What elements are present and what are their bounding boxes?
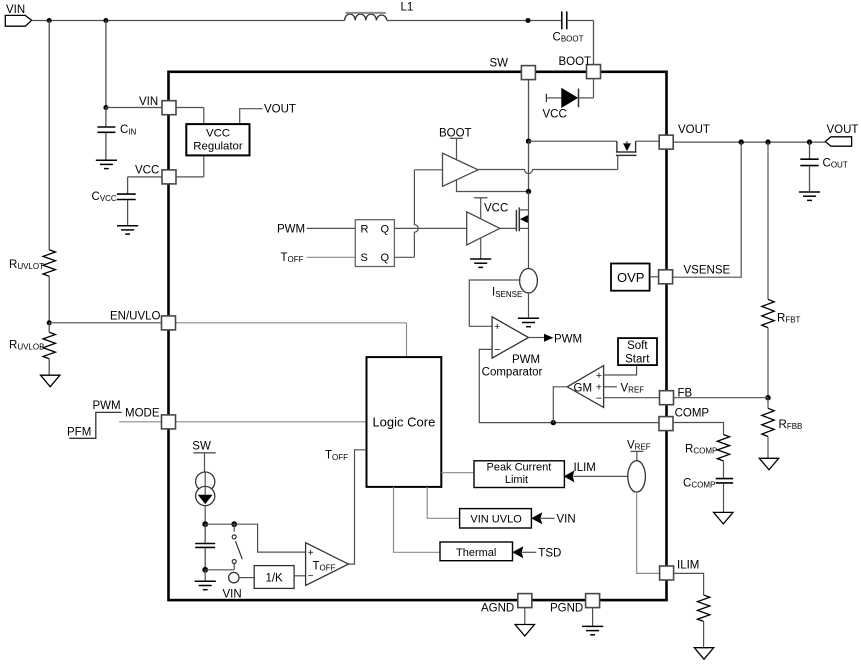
svg-text:Q: Q	[381, 224, 390, 236]
arrow TSD into Thermal	[513, 547, 523, 557]
buffer high-side driver	[443, 153, 479, 186]
wire VIN down to RUVLOT	[48, 21, 50, 250]
node junction COUT tap	[807, 139, 812, 144]
svg-text:ILIM: ILIM	[574, 462, 596, 474]
resistor RUVLOB	[43, 332, 55, 358]
ground below ISENSE	[518, 317, 539, 319]
wire SW pin down	[528, 79, 530, 141]
ground below CVCC	[117, 225, 138, 227]
svg-text:VOUT: VOUT	[827, 124, 859, 136]
node junction FB divider	[765, 395, 770, 400]
wire high driver output to gate	[478, 170, 618, 174]
svg-text:−: −	[494, 344, 500, 356]
wire sense FET to ISENSE	[528, 228, 530, 268]
svg-text:COMP: COMP	[675, 408, 710, 420]
wire MODE external	[119, 421, 161, 423]
wire VREF source to ILIM pin	[637, 492, 659, 573]
wire CIN node to VIN pin	[106, 107, 162, 109]
pin VCC	[162, 170, 176, 184]
svg-text:Limit: Limit	[505, 474, 528, 486]
svg-text:Thermal: Thermal	[456, 547, 496, 559]
wire comparator minus to COMP	[479, 349, 659, 422]
capacitor CVCC	[127, 177, 129, 194]
svg-text:S: S	[361, 252, 368, 264]
svg-text:PWM: PWM	[554, 334, 582, 346]
pin EN/UVLO	[162, 316, 176, 330]
svg-text:GM: GM	[574, 382, 593, 394]
svg-text:VCC: VCC	[543, 109, 567, 121]
wire Q to low driver	[394, 227, 466, 229]
svg-text:VIN UVLO: VIN UVLO	[470, 514, 522, 526]
wire FB to GM minus	[604, 397, 660, 399]
wire VREF to GM plus	[604, 386, 617, 388]
label BOOT driver supply	[450, 137, 463, 139]
wire TOFF comparator to Logic Core	[348, 450, 366, 564]
wire SW junction down	[528, 141, 530, 191]
svg-text:Comparator: Comparator	[482, 366, 543, 378]
label VCC driver supply	[474, 197, 487, 199]
node junction VIN-RUVLO	[47, 18, 52, 23]
switch discharge	[233, 524, 235, 532]
node junction VIN-CIN	[103, 18, 108, 23]
svg-text:VIN: VIN	[6, 4, 25, 16]
wire Logic Core to Thermal	[394, 487, 441, 552]
ground below AGND	[524, 608, 526, 625]
svg-text:VIN: VIN	[557, 513, 576, 525]
resistor RFBT	[767, 142, 769, 299]
wire MODE to Logic Core	[176, 421, 367, 423]
inductor L1	[345, 14, 387, 20]
ground below COUT	[799, 191, 820, 193]
block Soft Start	[618, 338, 657, 365]
svg-text:EN/UVLO: EN/UVLO	[110, 310, 161, 322]
node VOUT output flag	[825, 137, 851, 146]
wire Qbar to high driver	[394, 256, 414, 258]
wire cap bottom to ground	[204, 570, 206, 582]
wire OVP to VSENSE pin	[650, 276, 660, 278]
block VCC Regulator	[186, 124, 249, 155]
resistor RUVLOT	[43, 250, 55, 276]
wire Logic Core to VIN UVLO	[427, 487, 459, 518]
pin BOOT	[587, 65, 601, 79]
svg-text:PFM: PFM	[67, 427, 91, 439]
svg-text:−: −	[596, 393, 602, 405]
svg-text:Start: Start	[625, 353, 650, 365]
wire RUVLOB to ground	[48, 359, 50, 376]
wire VOUT rail	[673, 141, 825, 143]
wire COMP external	[673, 423, 724, 435]
ground below CCOMP	[714, 512, 733, 524]
pin SW	[521, 66, 535, 80]
arrow PWM output	[544, 334, 552, 341]
svg-text:TSD: TSD	[538, 548, 561, 560]
wire current source to cap	[204, 506, 206, 525]
svg-text:+: +	[494, 321, 500, 333]
node junction SW-FET	[526, 139, 531, 144]
op-amp GM error amplifier	[567, 366, 603, 408]
wire EN/UVLO	[49, 322, 161, 324]
node junction cap bottom	[202, 567, 208, 573]
ground below low driver	[470, 258, 491, 260]
svg-text:VSENSE: VSENSE	[684, 264, 731, 276]
svg-text:OVP: OVP	[617, 270, 644, 285]
svg-text:−: −	[308, 571, 314, 582]
capacitor CIN	[105, 108, 107, 127]
block Thermal	[440, 542, 513, 561]
pin MODE	[162, 415, 176, 429]
capacitor timing	[204, 524, 206, 543]
svg-text:BOOT: BOOT	[439, 128, 472, 140]
wire VIN terminal to 1/K	[239, 577, 254, 579]
arrow VIN into VIN UVLO	[532, 513, 542, 523]
svg-text:R: R	[361, 224, 369, 236]
svg-text:VCC: VCC	[484, 202, 508, 214]
wire CBOOT to BOOT pin	[567, 20, 594, 22]
node junction GM output	[551, 420, 556, 425]
svg-text:L1: L1	[401, 1, 414, 13]
svg-text:Logic Core: Logic Core	[372, 415, 435, 430]
block Peak Current Limit	[474, 461, 564, 488]
latch RS flip-flop	[355, 220, 394, 267]
wire RFBT to FB node	[767, 328, 769, 398]
svg-text:Soft: Soft	[627, 340, 648, 352]
svg-text:+: +	[596, 370, 602, 382]
transistor high-side FET	[529, 140, 617, 142]
node junction timing cap	[202, 521, 208, 527]
node junction SW-top	[526, 18, 531, 23]
wire inductor to CBOOT	[387, 20, 561, 22]
capacitor COUT	[809, 142, 811, 159]
svg-text:AGND: AGND	[481, 602, 514, 614]
wire soft start to GM plus	[604, 365, 637, 375]
arrow ILIM into Peak Current Limit	[565, 471, 574, 481]
resistor RCOMP	[717, 435, 729, 461]
svg-text:+: +	[308, 548, 314, 559]
wire GM output to COMP node	[553, 387, 567, 423]
wire VIN down to CIN node	[105, 21, 107, 108]
op-amp TOFF comparator	[306, 543, 349, 586]
wire PWM comparator output	[529, 337, 545, 339]
wire ISENSE tap to comparator	[469, 280, 519, 326]
wire Logic Core to Peak Current Limit	[441, 472, 474, 474]
ground below RFBB	[767, 437, 769, 459]
ground below timing cap	[195, 580, 216, 582]
current source SW controlled	[196, 472, 215, 491]
svg-text:VIN: VIN	[223, 588, 242, 600]
block Logic Core	[367, 357, 442, 487]
wire VCC Regulator VOUT stub	[240, 109, 263, 124]
node junction switch top	[231, 521, 237, 527]
wire 1/K to comparator minus	[294, 575, 306, 577]
wire EN/UVLO to Logic Core	[176, 322, 407, 324]
svg-text:ILIM: ILIM	[677, 559, 699, 571]
pin AGND	[518, 594, 532, 608]
svg-text:VCC: VCC	[206, 127, 230, 139]
svg-text:Peak Current: Peak Current	[486, 462, 551, 474]
node junction driver rail	[526, 189, 531, 194]
wire RUVLOT to junction	[48, 276, 50, 323]
node VIN terminal circle	[229, 572, 239, 582]
svg-text:PWM: PWM	[93, 400, 121, 412]
resistor RILIM	[697, 595, 709, 621]
wire TOFF to S	[307, 256, 356, 258]
svg-text:1/K: 1/K	[265, 573, 283, 585]
wire junction to sense FET drain	[528, 192, 530, 210]
capacitor CCOMP	[723, 461, 725, 479]
wire VIN rail to inductor	[32, 20, 345, 22]
svg-text:BOOT: BOOT	[559, 56, 592, 68]
wire to switch and comparator	[205, 523, 234, 525]
svg-text:Q: Q	[381, 252, 390, 264]
pin VIN	[162, 101, 176, 115]
wire VIN pin to VCC Regulator	[176, 107, 204, 109]
current source ISENSE	[520, 269, 538, 293]
svg-text:Regulator: Regulator	[193, 141, 243, 153]
wire junction to RUVLOB	[48, 323, 50, 333]
block VIN UVLO	[460, 509, 532, 528]
buffer low-side driver	[467, 212, 500, 245]
svg-text:VCC: VCC	[135, 165, 159, 177]
op-amp PWM comparator	[492, 317, 528, 358]
node VIN input flag	[5, 15, 31, 26]
wire VCC pin to CVCC	[128, 176, 163, 178]
ground below CIN	[96, 159, 117, 161]
svg-text:VOUT: VOUT	[678, 124, 710, 136]
wire ILIM external	[674, 573, 704, 595]
pin FB	[660, 391, 674, 405]
wire PWM to R	[307, 227, 356, 229]
wire VCC Regulator to VCC pin	[203, 156, 205, 177]
wire high driver bottom rail	[457, 180, 529, 192]
wire FB external	[674, 397, 769, 399]
ground below RILIM	[703, 621, 705, 647]
IC boundary box	[169, 72, 667, 600]
diode bootstrap VCC to BOOT	[545, 94, 547, 102]
svg-text:VIN: VIN	[139, 96, 158, 108]
transistor sense FET	[515, 210, 517, 231]
wire low driver ground stub	[480, 238, 482, 259]
svg-text:PWM: PWM	[512, 354, 540, 366]
svg-text:PGND: PGND	[550, 602, 583, 614]
svg-text:SW: SW	[490, 58, 509, 70]
wire ISENSE to ground	[528, 293, 530, 319]
capacitor CBOOT	[561, 11, 563, 29]
ground below RUVLOB	[41, 375, 60, 387]
pin ILIM	[660, 566, 674, 580]
block OVP	[611, 264, 650, 291]
node junction CIN	[103, 105, 108, 110]
svg-text:SW: SW	[192, 440, 211, 452]
mode waveform PWM/PFM symbol	[69, 412, 121, 438]
svg-text:MODE: MODE	[125, 408, 160, 420]
node junction VSENSE tap	[739, 139, 744, 144]
svg-text:PWM: PWM	[277, 224, 305, 236]
node junction RFBT tap	[765, 139, 770, 144]
pin VOUT	[659, 135, 673, 149]
resistor RFBB	[767, 398, 769, 409]
wire VSENSE external	[673, 142, 742, 277]
block 1/K divider	[254, 566, 294, 589]
ground below PGND	[592, 608, 594, 627]
pin PGND	[586, 594, 600, 608]
node junction EN-UVLO	[47, 320, 52, 325]
pin VSENSE	[659, 270, 673, 284]
pin COMP	[659, 417, 673, 431]
svg-text:VOUT: VOUT	[264, 103, 296, 115]
